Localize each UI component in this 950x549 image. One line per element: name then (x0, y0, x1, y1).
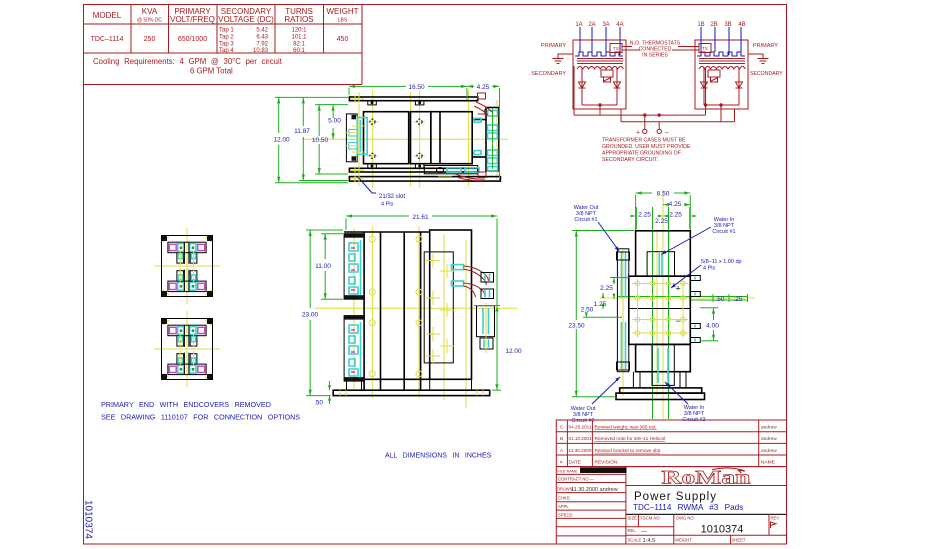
A bottom mounting rail (349, 168, 477, 172)
svg-text:450: 450 (337, 36, 349, 43)
svg-text:Tap 2: Tap 2 (219, 35, 234, 41)
T1 thermostat TS (610, 44, 622, 53)
svg-text:11.30.2000: 11.30.2000 (569, 448, 592, 454)
T2 secondary winding (699, 67, 745, 70)
svg-text:4 Pls: 4 Pls (703, 266, 715, 272)
svg-text:2.25: 2.25 (600, 285, 613, 292)
svg-text:.25: .25 (734, 296, 743, 303)
C callout water out circuit 2 (571, 377, 620, 424)
svg-text:1A: 1A (575, 22, 582, 28)
svg-text:2.25: 2.25 (638, 211, 651, 218)
C upper inner channel (647, 252, 674, 277)
T2 diode D3 (701, 68, 708, 105)
C pads bolt centerlines (632, 279, 688, 338)
T1 primary lead wire (558, 54, 573, 58)
svg-text:VOLTAGE (DC): VOLTAGE (DC) (218, 15, 274, 24)
svg-text:Cooling Requirements: 4 GPM @: Cooling Requirements: 4 GPM @ 30°C per c… (93, 57, 283, 66)
A red detail top right (478, 93, 486, 99)
C lower inner channel (652, 344, 674, 385)
svg-text:+: + (636, 130, 640, 137)
svg-text:TDC–1114: TDC–1114 (91, 36, 124, 43)
T1 tap labels 1A 2A 3A 4A (575, 22, 623, 28)
table data row (91, 36, 349, 43)
T1 core (577, 59, 623, 64)
svg-text:Tap 4: Tap 4 (219, 48, 234, 54)
T2 diode D4 (736, 68, 743, 105)
C upper core block (636, 231, 691, 276)
svg-text:—: — (641, 529, 647, 535)
D square 2 (162, 319, 213, 380)
A dim 4.25 (467, 84, 500, 180)
svg-text:5/8–11 x 1.00 dp: 5/8–11 x 1.00 dp (701, 259, 742, 265)
B dim 23.00 (302, 230, 343, 396)
svg-text:1:4.5: 1:4.5 (643, 538, 656, 544)
B upper winding module (344, 234, 364, 300)
svg-text:60:1: 60:1 (293, 48, 305, 54)
A dim 12.00 (273, 97, 348, 182)
svg-text:DATE: DATE (569, 460, 581, 466)
svg-text:21/32 slot: 21/32 slot (379, 194, 405, 200)
svg-text:andrew: andrew (761, 436, 777, 442)
D centerlines square 1 (154, 228, 220, 304)
C hex stub cyan tips (694, 277, 696, 342)
C dim 2.25 left (600, 278, 630, 300)
svg-text:1010374: 1010374 (83, 500, 94, 539)
svg-text:SHEET: SHEET (732, 538, 746, 543)
svg-text:CHKD: CHKD (558, 496, 570, 501)
output terminal - (657, 129, 661, 133)
svg-text:PRIMARY: PRIMARY (753, 43, 778, 49)
output terminal + (643, 129, 647, 133)
A rail bolt tabs (368, 101, 424, 168)
A dim 10.50 (312, 105, 348, 174)
C bolt circles row 3 (635, 317, 685, 322)
A dim 16.50 (349, 84, 467, 100)
C yellow centerlines (600, 190, 755, 419)
svg-text:LBS: LBS (338, 18, 348, 24)
T2 tap labels 1B 2B 3B 4B (697, 22, 745, 28)
B dim 11.00 (315, 234, 343, 300)
C dim 4.00 (700, 308, 719, 341)
svg-text:FSCM NO: FSCM NO (641, 515, 661, 520)
A bracket lower right (424, 166, 477, 174)
svg-text:23.50: 23.50 (568, 323, 585, 330)
svg-text:NAME: NAME (761, 460, 775, 466)
B flexible leads (red) (464, 266, 489, 297)
B outer body (344, 232, 430, 379)
A bottom foot rail (349, 177, 500, 182)
svg-text:TS: TS (613, 46, 619, 51)
C dim 23.50 (568, 231, 634, 397)
C green centerline extensions (617, 207, 748, 419)
svg-text:VOLT/FREQ: VOLT/FREQ (170, 15, 215, 24)
A secondary lead wires (red) (455, 102, 492, 181)
A left endcover (cyan) (349, 118, 367, 155)
drawing sheet frame (84, 5, 787, 545)
B core right block (430, 230, 472, 379)
svg-text:01.10.2001: 01.10.2001 (569, 436, 592, 442)
svg-text:PRIMARY END WITH ENDCOVERS REM: PRIMARY END WITH ENDCOVERS REMOVED (101, 400, 271, 409)
C pads block (629, 276, 691, 344)
B output pad upper (cyan) (481, 273, 494, 299)
svg-text:2.25: 2.25 (669, 211, 682, 218)
svg-text:B: B (560, 436, 563, 442)
svg-text:SECONDARY: SECONDARY (531, 71, 566, 77)
svg-text:23.00: 23.00 (302, 312, 319, 319)
title block (626, 513, 787, 515)
svg-text:SECONDARY: SECONDARY (750, 71, 783, 77)
svg-text:TDC–1114 RWMA #3 Pads: TDC–1114 RWMA #3 Pads (633, 503, 743, 512)
B legs (347, 379, 472, 390)
svg-text:APPROPRIATE GROUNDING OF: APPROPRIATE GROUNDING OF (602, 151, 681, 157)
B output pad lower (cyan) (477, 303, 495, 353)
B winding lead pads (cyan) (452, 265, 464, 286)
svg-text:7.92: 7.92 (256, 42, 268, 48)
T1 rectifier block (601, 70, 613, 82)
C bolt circles row 1 (635, 281, 685, 286)
svg-text:04.25.2011: 04.25.2011 (569, 425, 592, 431)
B yellow centerlines (315, 226, 517, 408)
A yellow slot marks rails (350, 95, 452, 183)
svg-text:Circuit #1: Circuit #1 (712, 229, 735, 235)
svg-text:andrew: andrew (761, 425, 777, 431)
revision row B (560, 436, 777, 442)
A right end green tube line (492, 109, 494, 169)
svg-text:16.50: 16.50 (408, 84, 425, 91)
B lower module terminals (cyan) (349, 322, 361, 377)
svg-text:−: − (664, 130, 668, 137)
svg-text:5.42: 5.42 (256, 28, 268, 34)
svg-text:.50: .50 (314, 400, 323, 407)
svg-text:Removed note for 5/8–11 Helico: Removed note for 5/8–11 Helicoil (595, 436, 666, 442)
svg-text:250: 250 (144, 36, 156, 43)
C dim .50 .25 (713, 294, 748, 303)
revision row A (560, 448, 777, 454)
svg-text:SCALE: SCALE (628, 538, 642, 543)
svg-text:Tap 3: Tap 3 (219, 42, 234, 48)
svg-text:Revised bracket to remove slot: Revised bracket to remove slot (595, 448, 662, 454)
svg-text:KVA: KVA (142, 7, 158, 16)
transformer T2 case (695, 40, 748, 109)
svg-text:4B: 4B (738, 22, 745, 28)
svg-text:−: − (676, 316, 681, 326)
C bolt circles row 4 (635, 331, 685, 336)
svg-text:4 Pls: 4 Pls (381, 202, 393, 208)
svg-text:Circuit #1: Circuit #1 (574, 217, 597, 223)
svg-text:21.61: 21.61 (412, 214, 429, 221)
T1 output bus (574, 66, 621, 122)
T2 primary lead wire (748, 54, 763, 58)
B base slot marks (340, 390, 483, 395)
svg-text:IN SERIES: IN SERIES (642, 53, 668, 59)
svg-text:650/1000: 650/1000 (178, 36, 207, 43)
B dim 12.00 (474, 306, 522, 391)
T2 tap wires (701, 27, 741, 55)
svg-text:Power Supply: Power Supply (634, 491, 717, 503)
svg-text:82:1: 82:1 (293, 42, 305, 48)
T2 thermostat TS (699, 44, 711, 53)
C base (620, 388, 702, 393)
svg-text:Circuit #2: Circuit #2 (571, 418, 594, 424)
A right end water fittings (cyan) (474, 111, 498, 172)
B base plate (333, 390, 490, 395)
C dim 4.25 (663, 201, 690, 208)
svg-text:SECONDARY CIRCUIT.: SECONDARY CIRCUIT. (602, 157, 658, 163)
svg-text:FILE NAME: FILE NAME (558, 470, 579, 474)
C callout water out circuit 1 (574, 205, 619, 251)
B upper module magenta bits (351, 248, 355, 290)
spec table (84, 5, 363, 85)
C dim 1.25 left (594, 293, 607, 309)
svg-text:2.50: 2.50 (581, 307, 594, 314)
revision header row (560, 460, 775, 466)
svg-text:WEIGHT: WEIGHT (675, 538, 692, 543)
C dim 2.25 row (631, 207, 696, 229)
svg-text:10.83: 10.83 (253, 48, 269, 54)
A lower bracket slot (437, 168, 480, 173)
svg-text:12.00: 12.00 (273, 137, 290, 144)
C bolt circles row 2 (635, 296, 685, 301)
C left bracket fittings (617, 252, 630, 370)
B core column lines (364, 232, 421, 390)
svg-text:5.00: 5.00 (328, 118, 341, 125)
svg-text:101:1: 101:1 (291, 35, 307, 41)
svg-text:DWG NO: DWG NO (676, 515, 694, 520)
rev flag (771, 522, 777, 528)
grounding note (602, 138, 691, 164)
T2 thermostat series wires (678, 46, 699, 48)
T2 primary winding (blue) (697, 52, 745, 56)
C left bracket (617, 249, 628, 372)
svg-text:MODEL: MODEL (93, 11, 122, 20)
svg-text:PRIMARY: PRIMARY (541, 43, 566, 49)
svg-text:TRANSFORMER CASES MUST BE: TRANSFORMER CASES MUST BE (602, 138, 686, 144)
svg-text:11.87: 11.87 (294, 128, 310, 135)
C upper water tubes (659, 253, 662, 275)
T2 rectifier block (708, 70, 720, 82)
T2 core (699, 59, 745, 64)
B dim .50 base (314, 381, 331, 407)
svg-text:SIZE: SIZE (628, 515, 638, 520)
svg-text:APPL: APPL (558, 504, 569, 509)
svg-text:REV: REV (771, 515, 780, 520)
transformer T1 case (573, 40, 626, 109)
svg-text:andrew: andrew (761, 448, 777, 454)
svg-text:REL: REL (628, 528, 637, 533)
A body core blocks (364, 112, 473, 164)
A callout 21/32 slot (358, 177, 405, 208)
svg-text:+: + (676, 284, 681, 294)
svg-text:RoMan: RoMan (662, 468, 752, 489)
RoMan logo (662, 468, 752, 489)
C callout water in circuit 1 (662, 217, 736, 255)
A dim 11.87 (294, 97, 348, 180)
svg-text:#: # (560, 460, 563, 466)
svg-text:4.25: 4.25 (477, 84, 490, 91)
note: N.O. thermostats connected in series (630, 41, 681, 59)
D centerlines square 2 (154, 311, 220, 387)
C callout water in circuit 2 (665, 382, 706, 423)
T1 diode D2 (614, 68, 621, 105)
C lower water tubes (658, 348, 668, 383)
A right end frame (472, 108, 499, 172)
svg-text:GROUNDED. USER MUST PROVIDE: GROUNDED. USER MUST PROVIDE (602, 144, 691, 150)
A dim 5.00 (328, 105, 341, 140)
svg-text:@ 50% DC: @ 50% DC (137, 18, 162, 24)
svg-text:8.50: 8.50 (657, 191, 670, 198)
C lower core block (636, 344, 691, 371)
B lower winding module (344, 316, 364, 382)
svg-text:CONTRACT NO —: CONTRACT NO — (558, 477, 595, 482)
A yellow centerlines (302, 90, 508, 188)
svg-text:REVISION: REVISION (595, 460, 618, 466)
C left bracket tubes (622, 252, 626, 369)
svg-text:Revised weight, was 365 est.: Revised weight, was 365 est. (595, 425, 657, 431)
D square 1 (162, 236, 213, 297)
svg-text:Tap 1: Tap 1 (219, 28, 234, 34)
T1 diode D1 (579, 68, 586, 105)
svg-text:ALL DIMENSIONS IN INCHES: ALL DIMENSIONS IN INCHES (385, 453, 492, 460)
svg-text:10.50: 10.50 (312, 137, 329, 144)
revision table (556, 420, 786, 467)
svg-text:SPECD: SPECD (558, 512, 572, 517)
A left terminal end plate (346, 114, 357, 162)
T1 primary winding (blue) (575, 52, 623, 56)
svg-text:6.43: 6.43 (256, 35, 268, 41)
T1 secondary winding (577, 67, 623, 70)
A bolt symbols (367, 116, 425, 161)
B bolt circles (369, 236, 422, 377)
svg-text:1010374: 1010374 (701, 524, 744, 536)
svg-text:4.25: 4.25 (669, 201, 682, 208)
svg-text:RATIOS: RATIOS (284, 15, 313, 24)
svg-text:WEIGHT: WEIGHT (327, 7, 359, 16)
C legs (633, 372, 686, 388)
svg-text:C: C (560, 425, 564, 431)
B pads plate (yellow crosses) (424, 252, 454, 363)
svg-text:SEE DRAWING 1110107 FOR CONNEC: SEE DRAWING 1110107 FOR CONNECTION OPTIO… (101, 413, 300, 422)
B lower module magenta bits (351, 330, 355, 372)
T2 ground (758, 59, 769, 64)
revision row C (560, 425, 777, 431)
T1 thermostat series wires (622, 46, 632, 48)
B dim 21.61 (346, 214, 497, 306)
svg-text:.50: .50 (716, 296, 725, 303)
svg-text:2.25: 2.25 (655, 218, 668, 225)
T1 tap wires (580, 27, 620, 55)
dc bus wires (574, 109, 735, 129)
svg-text:1.25: 1.25 (594, 301, 607, 308)
C dim 8.50 (636, 191, 691, 231)
T1 ground (553, 59, 564, 64)
C right hex stubs (690, 276, 700, 343)
T2 output bus (704, 68, 739, 122)
A left terminal yellow marks (345, 126, 364, 152)
table header text (93, 7, 359, 24)
B upper module terminals (cyan) (349, 240, 361, 295)
svg-text:120:1: 120:1 (291, 28, 307, 34)
svg-text:11.30.2000 andrew: 11.30.2000 andrew (571, 487, 618, 493)
A top mounting rail (349, 97, 477, 101)
svg-text:TS: TS (702, 46, 708, 51)
svg-text:4.00: 4.00 (706, 323, 719, 330)
C callout 5/8-11 tap (671, 259, 742, 288)
svg-text:3B: 3B (724, 22, 731, 28)
svg-text:2B: 2B (710, 22, 717, 28)
svg-text:12.00: 12.00 (505, 348, 522, 355)
svg-text:6 GPM Total: 6 GPM Total (190, 67, 233, 76)
C dim 2.50 left (581, 307, 622, 318)
svg-text:11.00: 11.00 (315, 263, 331, 270)
